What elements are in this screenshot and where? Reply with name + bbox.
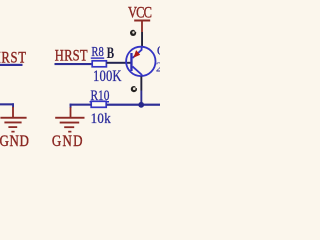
wire R10 to right edge through junction [107, 104, 161, 106]
svg-text:HRST: HRST [55, 47, 88, 65]
svg-text:Q: Q [157, 44, 160, 59]
resistor R8 [92, 61, 106, 67]
ground GND1 [0, 107, 26, 133]
wire from HRST to R8 [55, 63, 93, 65]
svg-text:100K: 100K [93, 67, 122, 85]
pin label c [131, 86, 138, 92]
junction dot [138, 102, 144, 108]
svg-text:B: B [107, 44, 115, 61]
R10 designator underline [90, 101, 110, 103]
svg-text:2: 2 [156, 61, 160, 76]
wire VCC to emitter [141, 32, 143, 48]
power VCC bar [134, 20, 150, 22]
ground GND2 [55, 107, 84, 132]
wire left edge to GND1 [0, 103, 14, 105]
transistor Q2 [126, 47, 155, 77]
pin label e [130, 30, 137, 37]
wire collector down to junction [140, 77, 142, 91]
resistor R10 [91, 101, 106, 107]
wire stub under left HRST [0, 64, 23, 66]
wire GND2 to R10 [70, 104, 92, 106]
svg-text:GND: GND [52, 133, 83, 150]
power VCC stem [141, 22, 143, 33]
svg-text:R8: R8 [91, 43, 103, 59]
svg-text:VCC: VCC [128, 4, 152, 22]
wire from R8 to transistor base [107, 62, 132, 64]
svg-text:10k: 10k [91, 111, 112, 127]
svg-text:GND: GND [0, 133, 29, 150]
R8 designator underline [91, 57, 104, 58]
